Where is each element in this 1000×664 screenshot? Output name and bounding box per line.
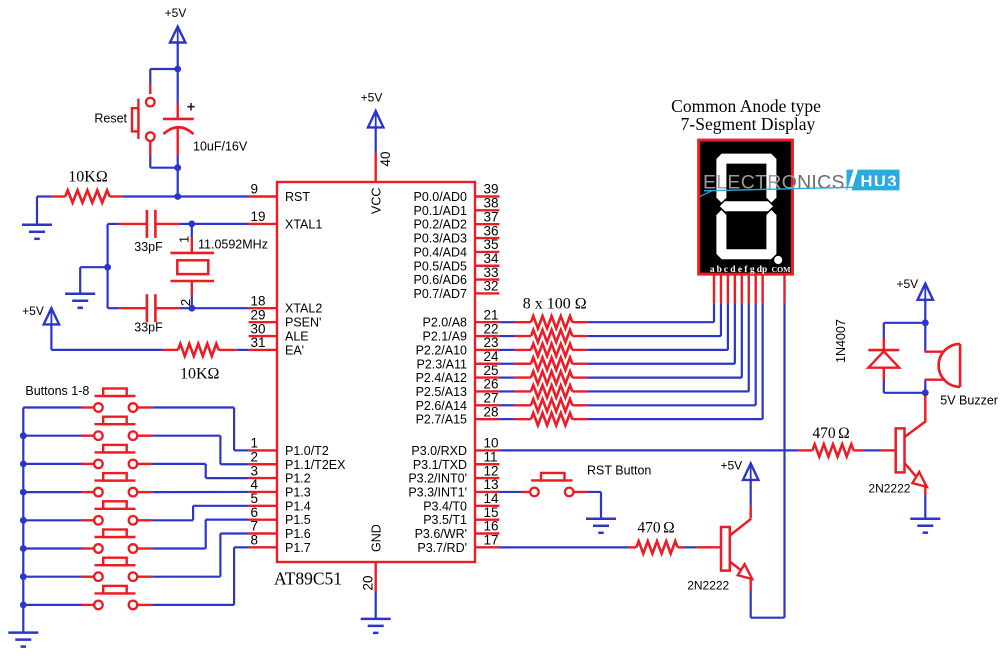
svg-text:P1.4: P1.4 <box>285 499 311 513</box>
svg-text:EA': EA' <box>285 343 304 357</box>
wire node to RST row <box>177 168 179 197</box>
svg-text:3: 3 <box>251 463 259 478</box>
svg-text:P3.3/INT1': P3.3/INT1' <box>408 485 467 499</box>
svg-text:+5V: +5V <box>896 277 918 291</box>
wire Q1 emitter to COM <box>750 579 752 591</box>
capacitor C2 33pF <box>119 223 147 225</box>
pin 17 P3.7/RD' <box>475 546 499 548</box>
wire caps left rail <box>108 223 119 225</box>
svg-text:+5V: +5V <box>720 459 742 473</box>
wire button B3 to pin 3 <box>137 463 152 465</box>
pin 27 P2.6/A14 <box>475 404 499 406</box>
svg-text:c: c <box>724 265 728 275</box>
pin 5 P1.4 <box>249 505 277 507</box>
svg-text:Buttons 1-8: Buttons 1-8 <box>25 384 89 398</box>
svg-text:P1.1/T2EX: P1.1/T2EX <box>285 458 346 472</box>
push button <box>95 508 136 510</box>
7-segment display DS1 body <box>699 140 793 274</box>
pin 25 P2.4/A12 <box>475 376 499 378</box>
svg-text:RST Button: RST Button <box>587 464 651 478</box>
push button <box>95 592 136 594</box>
svg-text:PSEN': PSEN' <box>285 316 321 330</box>
svg-text:P1.0/T2: P1.0/T2 <box>285 444 329 458</box>
svg-text:XTAL2: XTAL2 <box>285 302 322 316</box>
svg-text:470 Ω: 470 Ω <box>812 425 849 442</box>
pin 21 P2.0/A8 <box>475 321 499 323</box>
wire EA row <box>50 324 52 350</box>
resistor RN5 100ohm <box>499 377 514 379</box>
pin 32 P0.7/AD7 <box>475 292 499 294</box>
pin 18 XTAL2 <box>249 307 277 309</box>
svg-text:10: 10 <box>484 436 499 451</box>
wire RN5 to display segment <box>587 377 742 379</box>
wire RN3 to display segment <box>587 349 728 351</box>
pin 26 P2.5/A13 <box>475 390 499 392</box>
resistor R1 10K <box>51 195 65 197</box>
capacitor C1 10uF/16V <box>177 69 179 103</box>
svg-text:P3.2/INT0': P3.2/INT0' <box>408 472 467 486</box>
svg-text:4: 4 <box>251 477 259 492</box>
wire +5V to node <box>177 43 179 70</box>
wire display COM pin <box>783 274 785 303</box>
pin 39 P0.0/AD0 <box>475 195 499 197</box>
wire button B1 left <box>23 406 81 408</box>
svg-text:30: 30 <box>251 321 266 336</box>
svg-text:GND: GND <box>370 524 384 552</box>
svg-text:11.0592MHz: 11.0592MHz <box>198 238 268 252</box>
svg-text:P2.3/A11: P2.3/A11 <box>416 357 467 371</box>
pin 6 P1.5 <box>249 518 277 520</box>
resistor RN2 100ohm <box>499 335 514 337</box>
pin 22 P2.1/A9 <box>475 335 499 337</box>
pin 23 P2.2/A10 <box>475 349 499 351</box>
switch Reset <box>137 99 139 139</box>
svg-text:P2.7/A15: P2.7/A15 <box>416 413 467 427</box>
node buzzer bottom <box>922 389 929 396</box>
wire button B3 left <box>23 463 81 465</box>
node rail B4 <box>20 489 27 496</box>
+5V supply EA <box>50 308 52 326</box>
svg-text:1: 1 <box>177 236 192 243</box>
wire RN8 to display segment <box>587 418 762 420</box>
wire RN2 to display segment <box>587 335 721 337</box>
pin 11 P3.1/TXD <box>475 463 499 465</box>
segment c <box>766 210 776 259</box>
node rail B2 <box>20 432 27 439</box>
resistor RN6 100ohm <box>499 390 514 392</box>
resistor RN4 100ohm <box>499 363 514 365</box>
pin 30 ALE <box>249 335 277 337</box>
ground reset pulldown <box>22 224 52 227</box>
svg-text:P3.4/T0: P3.4/T0 <box>423 499 467 513</box>
svg-text:g: g <box>750 265 755 275</box>
svg-text:8 x 100 Ω: 8 x 100 Ω <box>523 296 587 313</box>
svg-text:26: 26 <box>484 377 499 392</box>
pin 8 P1.7 <box>249 546 277 548</box>
svg-text:P2.0/A8: P2.0/A8 <box>423 316 468 330</box>
wire to ground <box>37 195 51 197</box>
pin 12 P3.2/INT0' <box>475 477 499 479</box>
svg-text:P2.5/A13: P2.5/A13 <box>416 385 467 399</box>
wire node to reset switch <box>150 68 177 70</box>
pin 10 P3.0/RXD <box>475 449 499 451</box>
svg-text:Common Anode type: Common Anode type <box>671 96 821 116</box>
svg-text:P0.4/AD4: P0.4/AD4 <box>413 245 467 259</box>
svg-text:P3.5/T1: P3.5/T1 <box>423 513 467 527</box>
resistor RN1 100ohm <box>499 321 514 323</box>
resistor R4 470 <box>628 546 636 548</box>
pin 4 P1.3 <box>249 491 277 493</box>
svg-text:33pF: 33pF <box>134 321 163 335</box>
ground chip GND <box>361 618 391 621</box>
svg-text:31: 31 <box>251 335 266 350</box>
buzzer BZ1 <box>924 323 926 352</box>
segment b <box>766 154 776 203</box>
pin 16 P3.6/WR' <box>475 532 499 534</box>
svg-text:33pF: 33pF <box>134 240 163 254</box>
svg-text:a: a <box>710 265 715 275</box>
svg-text:d: d <box>730 265 736 275</box>
+5V supply VCC <box>375 111 377 129</box>
node reset top <box>174 66 181 73</box>
svg-text:32: 32 <box>484 279 499 294</box>
pin 29 PSEN' <box>249 321 277 323</box>
pin 37 P0.2/AD2 <box>475 223 499 225</box>
pin 35 P0.4/AD4 <box>475 251 499 253</box>
svg-text:11: 11 <box>484 449 498 464</box>
pin 31 EA' <box>249 349 277 351</box>
wire to crystal ground <box>80 266 107 268</box>
svg-text:22: 22 <box>484 321 499 336</box>
svg-text:2: 2 <box>178 299 193 306</box>
ground RST button <box>586 518 616 521</box>
svg-text:18: 18 <box>251 293 266 308</box>
pin 14 P3.4/T0 <box>475 505 499 507</box>
resistor RN8 100ohm <box>499 418 514 420</box>
svg-text:10uF/16V: 10uF/16V <box>193 140 248 154</box>
svg-text:24: 24 <box>484 349 500 364</box>
wire RN1 to display segment <box>587 321 714 323</box>
svg-text:P3.6/WR': P3.6/WR' <box>415 527 467 541</box>
push button <box>95 564 136 566</box>
svg-text:16: 16 <box>484 519 499 534</box>
svg-text:27: 27 <box>484 391 499 406</box>
wire P3.0 row <box>499 449 798 451</box>
svg-text:dp: dp <box>757 265 768 275</box>
svg-text:P0.6/AD6: P0.6/AD6 <box>413 273 467 287</box>
crystal Y1 11.0592MHz <box>191 224 193 237</box>
svg-text:VCC: VCC <box>370 188 384 214</box>
resistor RN7 100ohm <box>499 404 514 406</box>
push button <box>95 395 136 397</box>
pin 34 P0.5/AD5 <box>475 265 499 267</box>
svg-text:1: 1 <box>251 436 259 451</box>
+5V supply Q1 <box>750 464 752 482</box>
svg-text:+5V: +5V <box>165 6 187 20</box>
svg-text:+5V: +5V <box>22 304 44 318</box>
wire P3.7 row <box>499 546 628 548</box>
wire button B7 to pin 7 <box>137 576 152 578</box>
wire button B8 left <box>23 604 81 606</box>
wire to diode <box>884 322 926 324</box>
pin 20 GND <box>375 562 377 592</box>
svg-text:2N2222: 2N2222 <box>687 579 729 593</box>
svg-text:23: 23 <box>484 335 499 350</box>
svg-text:+: + <box>187 100 195 116</box>
wire button B2 to pin 2 <box>137 435 152 437</box>
svg-text:2N2222: 2N2222 <box>868 482 910 496</box>
wire button B4 to pin 4 <box>137 491 152 493</box>
svg-text:P0.1/AD1: P0.1/AD1 <box>413 204 467 218</box>
svg-text:P2.1/A9: P2.1/A9 <box>423 330 468 344</box>
pin 24 P2.3/A11 <box>475 363 499 365</box>
wire P3.3 row <box>499 491 521 493</box>
wire XTAL1 row <box>192 223 249 225</box>
svg-text:15: 15 <box>484 505 499 520</box>
svg-text:P3.0/RXD: P3.0/RXD <box>411 444 467 458</box>
transistor Q1 2N2222 <box>721 527 730 571</box>
svg-text:38: 38 <box>484 196 499 211</box>
svg-text:P2.6/A14: P2.6/A14 <box>416 399 467 413</box>
svg-text:P0.0/AD0: P0.0/AD0 <box>413 190 467 204</box>
svg-text:2: 2 <box>251 449 259 464</box>
node caps rail <box>104 264 111 271</box>
wire buttons common rail <box>22 408 24 633</box>
pin 28 P2.7/A15 <box>475 418 499 420</box>
ground buttons <box>8 631 38 634</box>
wire XTAL2 row <box>192 307 249 309</box>
pin 9 RST <box>249 195 277 197</box>
wire button B8 to pin 8 <box>137 604 152 606</box>
wire button B2 left <box>23 435 81 437</box>
svg-text:37: 37 <box>484 209 499 224</box>
svg-text:P1.7: P1.7 <box>285 541 311 555</box>
segment e <box>716 210 726 259</box>
wire button B5 left <box>23 519 81 521</box>
svg-text:P1.6: P1.6 <box>285 527 311 541</box>
wire Q2 emitter to ground <box>924 486 926 494</box>
wire Q1 collector to +5V <box>750 505 752 518</box>
resistor RN3 100ohm <box>499 349 514 351</box>
wire button B4 left <box>23 491 81 493</box>
segment a <box>717 154 776 164</box>
push button RST <box>531 479 572 481</box>
svg-text:P0.5/AD5: P0.5/AD5 <box>413 259 467 273</box>
svg-text:P3.7/RD': P3.7/RD' <box>417 541 467 555</box>
transistor Q2 2N2222 <box>896 428 905 472</box>
svg-text:29: 29 <box>251 307 266 322</box>
pin 15 P3.5/T1 <box>475 518 499 520</box>
svg-text:AT89C51: AT89C51 <box>274 569 342 589</box>
pin 1 P1.0/T2 <box>249 449 277 451</box>
svg-text:13: 13 <box>484 477 499 492</box>
+5V supply reset <box>177 27 179 45</box>
push button <box>95 536 136 538</box>
svg-text:36: 36 <box>484 223 499 238</box>
ground Q2 <box>910 517 940 520</box>
svg-text:ALE: ALE <box>285 330 309 344</box>
svg-text:6: 6 <box>251 505 259 520</box>
pin 19 XTAL1 <box>249 223 277 225</box>
wire button B1 to pin 1 <box>137 406 152 408</box>
wire button B5 to pin 5 <box>137 519 152 521</box>
svg-text:39: 39 <box>484 182 499 197</box>
svg-text:Reset: Reset <box>94 112 127 126</box>
svg-text:+5V: +5V <box>361 91 383 105</box>
node buzzer top <box>922 319 929 326</box>
svg-text:7: 7 <box>251 519 259 534</box>
wire RN6 to display segment <box>587 390 749 392</box>
pin 40 VCC <box>375 153 377 182</box>
wire RN4 to display segment <box>587 363 735 365</box>
wire button B6 left <box>23 547 81 549</box>
svg-text:HU3: HU3 <box>861 173 897 191</box>
diode D1 1N4007 <box>883 338 885 350</box>
+5V supply buzzer <box>924 284 926 302</box>
push button <box>95 479 136 481</box>
wire RST row <box>123 195 249 197</box>
pin 7 P1.6 <box>249 532 277 534</box>
node RST <box>174 193 181 200</box>
wire button B7 left <box>23 576 81 578</box>
resistor R3 470 <box>798 449 812 451</box>
pin 33 P0.6/AD6 <box>475 278 499 280</box>
svg-text:b: b <box>717 265 722 275</box>
svg-text:25: 25 <box>484 363 499 378</box>
wire reset switch bottom <box>149 141 151 155</box>
svg-text:470 Ω: 470 Ω <box>637 520 674 537</box>
push button <box>95 423 136 425</box>
node rail B3 <box>20 461 27 468</box>
svg-text:20: 20 <box>361 575 376 590</box>
svg-text:P2.2/A10: P2.2/A10 <box>416 343 467 357</box>
wire diode bottom <box>883 380 885 393</box>
svg-text:8: 8 <box>251 533 259 548</box>
op IC U1 AT89C51 body <box>277 182 475 562</box>
svg-text:5V Buzzer: 5V Buzzer <box>940 394 998 408</box>
node rail B7 <box>20 573 27 580</box>
svg-text:P3.1/TXD: P3.1/TXD <box>413 458 467 472</box>
node XTAL2 <box>188 305 195 312</box>
wire Q2 collector <box>924 393 926 422</box>
svg-text:P0.3/AD3: P0.3/AD3 <box>413 232 467 246</box>
svg-text:P0.2/AD2: P0.2/AD2 <box>413 218 467 232</box>
svg-text:40: 40 <box>378 151 393 166</box>
svg-text:COM: COM <box>771 265 791 274</box>
svg-text:5: 5 <box>251 491 259 506</box>
pin 3 P1.2 <box>249 477 277 479</box>
wire RN7 to display segment <box>587 404 756 406</box>
capacitor C3 33pF <box>119 307 147 309</box>
segment dp <box>774 256 782 264</box>
svg-text:35: 35 <box>484 237 499 252</box>
svg-text:34: 34 <box>484 251 500 266</box>
svg-text:1N4007: 1N4007 <box>834 319 848 363</box>
wire button B6 to pin 6 <box>137 547 152 549</box>
node rail B6 <box>20 545 27 552</box>
svg-text:P1.3: P1.3 <box>285 485 311 499</box>
svg-text:XTAL1: XTAL1 <box>285 217 322 231</box>
pin 36 P0.3/AD3 <box>475 237 499 239</box>
wire +5V to buzzer node <box>924 300 926 323</box>
segment g <box>720 201 773 211</box>
wire RST button to ground <box>574 491 588 493</box>
svg-text:19: 19 <box>251 209 266 224</box>
svg-text:10KΩ: 10KΩ <box>68 169 108 186</box>
svg-text:P2.4/A12: P2.4/A12 <box>416 371 467 385</box>
node rail B5 <box>20 517 27 524</box>
svg-text:e: e <box>738 265 742 275</box>
svg-text:21: 21 <box>484 307 499 322</box>
pin 38 P0.1/AD1 <box>475 209 499 211</box>
svg-text:14: 14 <box>484 491 500 506</box>
pin 2 P1.1/T2EX <box>249 463 277 465</box>
ground crystal <box>65 293 95 296</box>
segment f <box>716 154 726 203</box>
svg-text:7-Segment Display: 7-Segment Display <box>681 114 816 134</box>
svg-text:P0.7/AD7: P0.7/AD7 <box>413 287 467 301</box>
svg-text:RST: RST <box>285 190 310 204</box>
segment d <box>717 249 776 259</box>
svg-text:28: 28 <box>484 404 499 419</box>
resistor R2 10K <box>163 349 178 351</box>
node reset bottom <box>174 164 181 171</box>
node XTAL1 <box>188 221 195 228</box>
push button <box>95 451 136 453</box>
svg-text:P1.5: P1.5 <box>285 513 311 527</box>
svg-text:9: 9 <box>251 182 259 197</box>
node rail B8 <box>20 602 27 609</box>
svg-text:33: 33 <box>484 265 499 280</box>
pin 13 P3.3/INT1' <box>475 491 499 493</box>
svg-text:P1.2: P1.2 <box>285 472 311 486</box>
svg-text:12: 12 <box>484 463 499 478</box>
svg-text:17: 17 <box>484 533 499 548</box>
svg-text:10KΩ: 10KΩ <box>180 366 220 383</box>
